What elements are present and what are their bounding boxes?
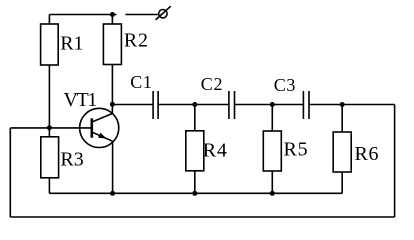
wire top rail left segment [49,14,116,16]
wire top rail right segment [125,14,159,16]
svg-text:R4: R4 [203,140,228,162]
svg-text:R2: R2 [124,30,149,52]
resistor R2 [103,15,121,105]
resistor R4 [186,105,204,194]
wire collector to C1 [112,104,153,106]
terminal output [156,6,171,20]
node R4 bottom junction [192,191,197,196]
node R6 top junction [340,102,345,107]
node R4 top junction [192,102,197,107]
capacitor C1 [153,91,158,119]
svg-text:R5: R5 [284,139,309,161]
svg-text:R1: R1 [60,32,83,54]
resistor R5 [263,105,281,194]
svg-text:R3: R3 [60,149,83,171]
node emitter bottom junction [110,191,115,196]
resistor R6 [333,105,351,194]
wire left edge feedback [9,128,11,217]
wire emitter ground rail [49,192,342,194]
svg-text:VT1: VT1 [64,89,97,111]
resistor R3 [41,128,59,194]
capacitor C2 [229,91,235,119]
transistor VT1 [80,104,119,193]
wire C2 to C3 [235,104,304,106]
resistor R1 [41,15,59,128]
wire bottom feedback [10,216,394,218]
wire base [10,127,92,129]
svg-text:C3: C3 [274,75,296,95]
wire C3 to right edge [309,104,395,106]
svg-text:R6: R6 [355,143,380,165]
svg-text:C1: C1 [130,72,152,92]
wire right edge feedback [394,105,396,218]
capacitor C3 [303,91,309,119]
wire C1 to C2 [158,104,229,106]
node R5 bottom junction [270,191,275,196]
node base junction [47,125,52,130]
node R5 top junction [270,102,275,107]
node top junction [110,12,115,17]
node collector junction [110,102,115,107]
svg-text:C2: C2 [201,74,224,94]
